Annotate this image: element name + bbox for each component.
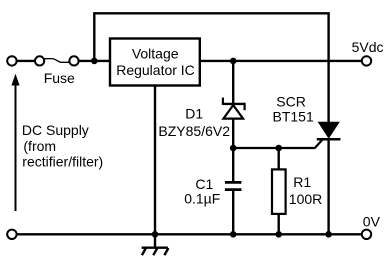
diode D1 zener — [223, 98, 245, 119]
wire top rail (input to SCR anode) — [94, 13, 328, 122]
node R1 bottom — [275, 231, 282, 238]
svg-text:rectifier/filter): rectifier/filter) — [22, 154, 103, 170]
svg-text:SCR: SCR — [276, 94, 306, 110]
wire regulator ground pin — [154, 86, 156, 248]
resistor R1 — [272, 169, 286, 214]
svg-text:0V: 0V — [363, 214, 381, 230]
svg-text:(from: (from — [23, 138, 56, 154]
node SCR cathode on 0V — [325, 231, 332, 238]
regulator U1 box — [110, 39, 200, 86]
svg-text:D1: D1 — [185, 105, 203, 121]
svg-text:Fuse: Fuse — [44, 70, 75, 86]
wire R1 to 0V — [278, 214, 280, 234]
wire 0V rail — [17, 233, 362, 235]
node regulator ground on 0V — [152, 231, 159, 238]
fuse F1 — [35, 56, 79, 65]
svg-text:C1: C1 — [195, 176, 213, 192]
svg-text:DC Supply: DC Supply — [22, 122, 89, 138]
terminal input - — [7, 230, 16, 239]
SCR Q1 BT151 — [317, 122, 341, 234]
wire output rail — [200, 60, 362, 62]
svg-text:5Vdc: 5Vdc — [352, 39, 384, 55]
wire gate node to C1 — [232, 148, 234, 182]
svg-text:BT151: BT151 — [273, 108, 314, 124]
terminal input + — [7, 56, 16, 65]
svg-text:R1: R1 — [293, 174, 311, 190]
wire C1 to 0V — [232, 190, 234, 235]
wire input to fuse — [17, 60, 36, 62]
arrow DC supply direction — [11, 74, 19, 211]
capacitor C1 — [225, 182, 242, 189]
wire gate node to R1 — [278, 148, 280, 169]
svg-text:BZY85/6V2: BZY85/6V2 — [158, 123, 230, 139]
node gate junction — [230, 145, 237, 152]
wire fuse to regulator — [79, 60, 110, 62]
wire zener to gate node — [232, 119, 234, 148]
svg-text:100R: 100R — [289, 191, 322, 207]
node C1 bottom — [230, 231, 237, 238]
svg-text:Voltage: Voltage — [132, 45, 179, 61]
wire gate — [233, 140, 322, 148]
node junction fuse/top-rail — [91, 58, 98, 65]
svg-text:Regulator IC: Regulator IC — [116, 62, 195, 78]
node zener top — [230, 58, 237, 65]
terminal 0V — [362, 230, 371, 239]
ground — [142, 248, 169, 256]
svg-text:0.1µF: 0.1µF — [184, 191, 220, 207]
node R1 top — [275, 145, 282, 152]
terminal 5Vdc — [362, 56, 371, 65]
wire rail to zener — [232, 61, 234, 104]
